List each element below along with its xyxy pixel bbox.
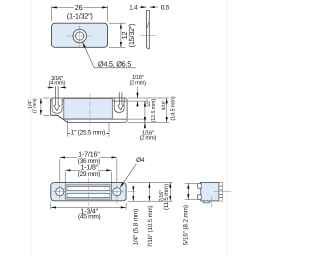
page border right bbox=[227, 0, 229, 256]
right strip ticks bbox=[219, 185, 223, 187]
dim 7/16 11.5mm line bbox=[169, 182, 171, 201]
ext top edge right bbox=[128, 97, 169, 99]
view5 v centerline bbox=[211, 196, 213, 207]
profile centerline bbox=[140, 35, 156, 37]
dim 1-7/16 text bbox=[78, 151, 101, 158]
svg-text:9/16″: 9/16″ bbox=[161, 100, 167, 111]
label dia4 leader bbox=[120, 164, 136, 188]
svg-text:(12.5 mm): (12.5 mm) bbox=[151, 99, 157, 123]
svg-text:0.5: 0.5 bbox=[161, 4, 170, 11]
ext shelf right bbox=[128, 118, 146, 120]
ext ledge right bbox=[128, 100, 147, 102]
dim 26 extension lines bbox=[51, 6, 53, 22]
ext centerline right bbox=[128, 191, 136, 193]
profile bend jog bbox=[147, 22, 149, 28]
profile left line bbox=[146, 10, 148, 47]
plate hole outer circle bbox=[73, 29, 87, 43]
plate hole crosshair vertical bbox=[79, 25, 81, 46]
profile top cap bbox=[147, 9, 150, 11]
chamfer diagonal bbox=[58, 115, 68, 122]
magnet bar 2 bbox=[67, 194, 110, 198]
plate outline bbox=[52, 23, 108, 47]
inner shelf line bbox=[64, 118, 127, 120]
page border left bbox=[30, 0, 32, 256]
dim 1-1/8 line bbox=[65, 169, 111, 171]
left prong bottom bbox=[198, 195, 202, 200]
dim 26 text bbox=[74, 4, 84, 11]
label dia 4.5 6.5 leader bbox=[83, 42, 95, 68]
right hole crosshair bbox=[110, 191, 124, 193]
main body bbox=[201, 182, 223, 201]
dim 1 25.5mm line bbox=[68, 132, 110, 134]
svg-text:(1-1/32″): (1-1/32″) bbox=[67, 11, 93, 20]
right cap ledge line bbox=[112, 100, 127, 102]
dim 1/16 2mm bottom leader bbox=[144, 123, 146, 130]
dim 1 25.5mm text bbox=[70, 129, 107, 136]
svg-text:(11.5 mm): (11.5 mm) bbox=[163, 184, 170, 210]
svg-text:(2 mm): (2 mm) bbox=[129, 79, 146, 86]
body outline bbox=[50, 98, 127, 122]
dim 0.5 arrow bbox=[149, 6, 158, 8]
dim 1-1/8 ext lines bbox=[64, 172, 66, 185]
dim 7/16 10.5mm line bbox=[148, 182, 150, 201]
right pocket wall right bbox=[123, 98, 125, 109]
ext top edge right (11.5 dim) bbox=[128, 181, 173, 183]
left pocket wall left bbox=[51, 98, 53, 109]
dim 1-1/8 text bbox=[80, 164, 98, 171]
dim 12 extension lines bbox=[109, 22, 126, 24]
dim 1/4 5.8mm line bbox=[132, 186, 134, 192]
dim 3/16 arrows bbox=[47, 86, 53, 88]
dim 1.4 arrow bbox=[139, 6, 146, 8]
svg-text:(45 mm): (45 mm) bbox=[78, 214, 101, 221]
body outline bbox=[51, 183, 126, 201]
svg-text:5/16″ (8.2 mm): 5/16″ (8.2 mm) bbox=[182, 205, 189, 245]
dim 1-3/4 line bbox=[51, 206, 126, 208]
dim 9/16 14.5mm line bbox=[166, 98, 168, 122]
body centerline bbox=[89, 94, 91, 127]
left cap bottom edge bbox=[50, 114, 57, 116]
right strip line bbox=[218, 182, 220, 201]
svg-text:(29 mm): (29 mm) bbox=[78, 171, 101, 178]
dim 26 line bbox=[52, 6, 108, 8]
left cap ledge segments bbox=[50, 100, 52, 102]
left pocket wall right bbox=[61, 98, 63, 109]
dim 1-7/16 line bbox=[60, 156, 117, 158]
svg-text:Ø4.5, Ø6.5: Ø4.5, Ø6.5 bbox=[98, 59, 131, 68]
dim 12 line bbox=[120, 23, 122, 47]
dim 5/16 line bbox=[187, 183, 189, 199]
right hole bbox=[113, 188, 121, 196]
dim 1/2 12.5mm line bbox=[144, 101, 146, 122]
label dia 4.5 6.5 underline bbox=[94, 67, 136, 69]
plate hole inner circle bbox=[76, 32, 84, 40]
right pocket bottom arc bbox=[114, 109, 124, 113]
ext bottom edge right bbox=[128, 200, 173, 202]
svg-text:(15/32″): (15/32″) bbox=[127, 24, 136, 48]
recess outline bbox=[65, 185, 111, 199]
dim 1-7/16 ext lines bbox=[59, 159, 61, 182]
left hole crosshair bbox=[53, 191, 67, 193]
plate hole crosshair horizontal bbox=[67, 35, 92, 37]
svg-text:7/16″ (10.5 mm): 7/16″ (10.5 mm) bbox=[147, 205, 154, 247]
right strip white bbox=[219, 182, 223, 201]
left hole bbox=[56, 188, 64, 196]
dim 1/16 2mm lower arrow bbox=[137, 101, 139, 106]
dim 1 25.5mm ext lines bbox=[67, 120, 69, 137]
left prong top bbox=[198, 184, 202, 189]
dim 1/4 7mm ext lines bbox=[43, 97, 49, 99]
dim 5/16 ext lines bbox=[185, 182, 197, 184]
left screw shank bbox=[55, 86, 57, 105]
left pocket bottom arc bbox=[52, 109, 62, 113]
svg-text:(2 mm): (2 mm) bbox=[140, 135, 157, 142]
dim 1/16 2mm top leader bbox=[137, 86, 139, 98]
svg-text:1/4″ (5.8 mm): 1/4″ (5.8 mm) bbox=[133, 209, 140, 246]
profile bottom cap bbox=[147, 48, 150, 50]
dim 1/4 7mm line bbox=[40, 98, 42, 115]
svg-text:(7 mm): (7 mm) bbox=[32, 98, 38, 113]
left screw head bbox=[54, 105, 60, 110]
right screw head bbox=[118, 105, 124, 110]
body blue face bbox=[64, 98, 113, 119]
ext lip right bbox=[128, 121, 169, 123]
view5 h centerline bbox=[214, 191, 232, 193]
svg-text:1″ (25.5 mm): 1″ (25.5 mm) bbox=[71, 130, 105, 137]
svg-text:(4 mm): (4 mm) bbox=[49, 80, 66, 87]
magnet bar 1 bbox=[67, 187, 110, 191]
svg-text:(14.5 mm): (14.5 mm) bbox=[170, 96, 177, 120]
right screw shank bbox=[118, 92, 120, 104]
svg-text:1.4: 1.4 bbox=[129, 4, 138, 11]
bottom tab bbox=[203, 201, 209, 203]
right pocket wall left bbox=[113, 98, 115, 109]
dim 1-3/4 ext lines bbox=[50, 203, 52, 210]
profile right line bbox=[148, 10, 150, 49]
view4 centerline vertical bbox=[87, 178, 89, 206]
svg-text:Ø4: Ø4 bbox=[136, 157, 145, 164]
